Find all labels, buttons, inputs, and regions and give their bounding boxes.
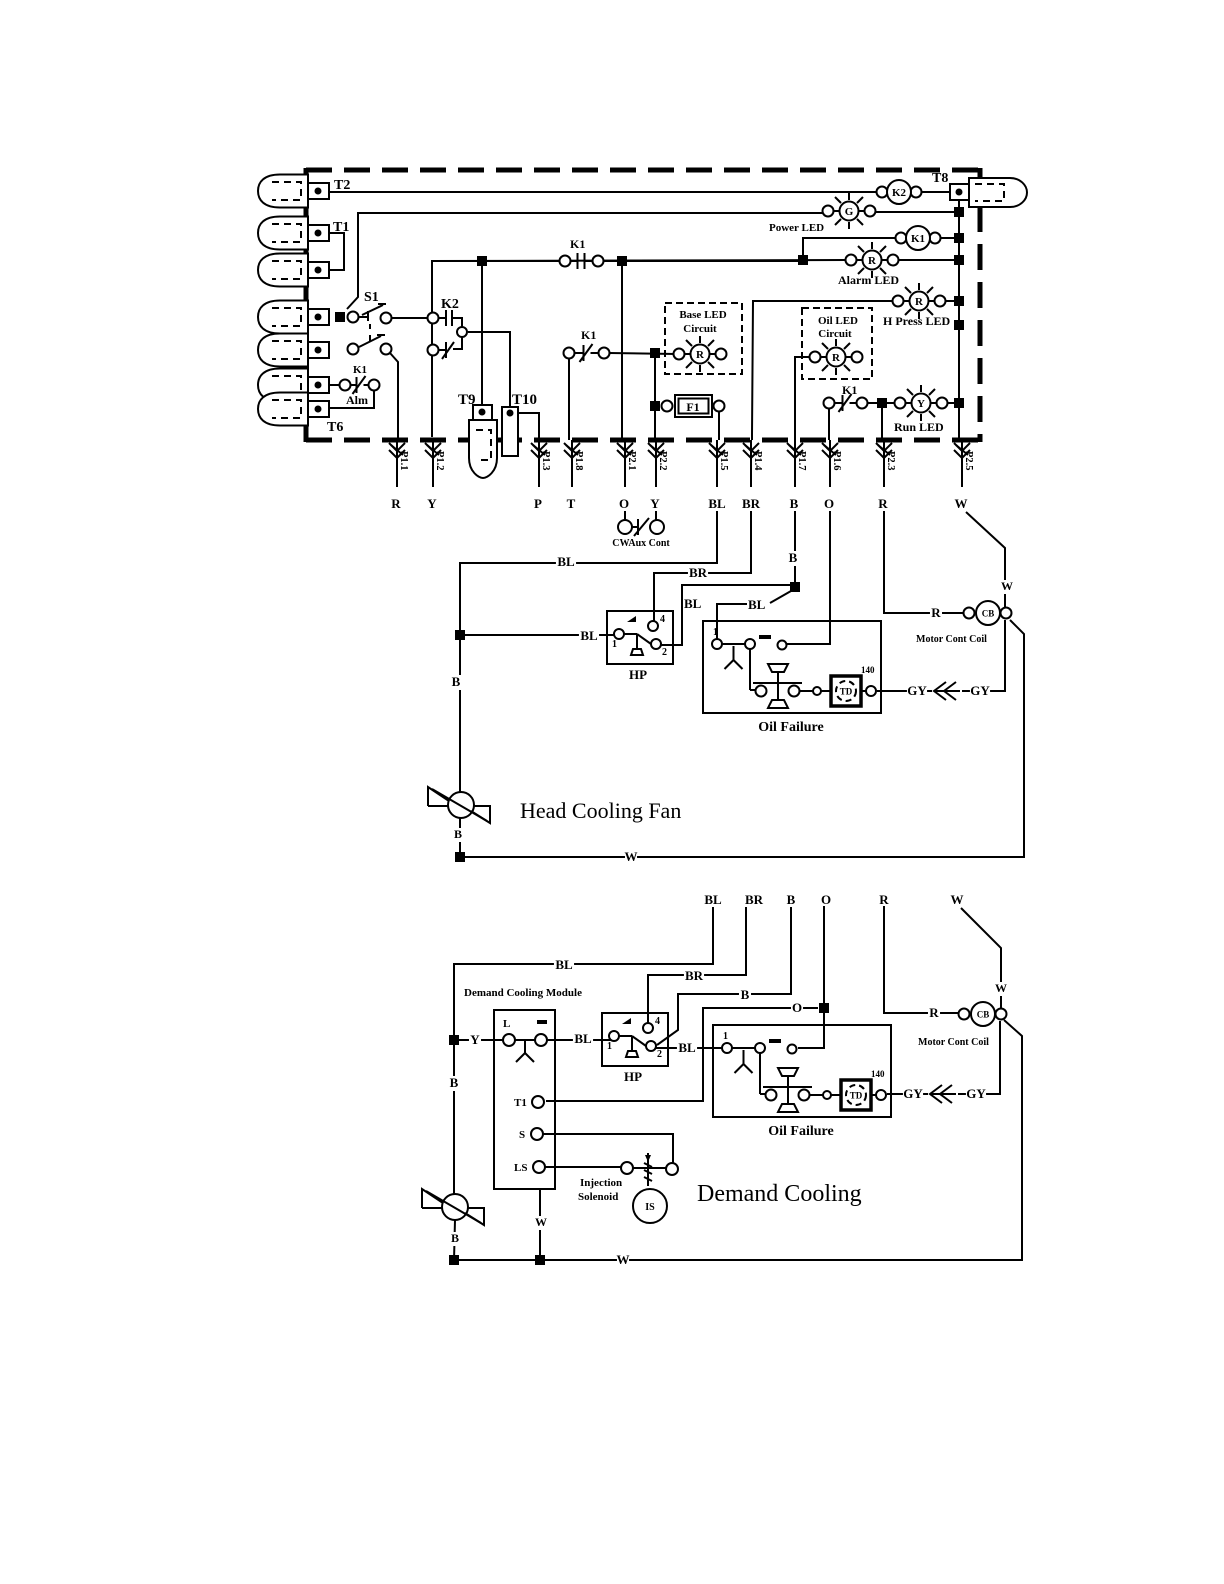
svg-text:R: R — [391, 496, 401, 511]
svg-text:R: R — [878, 496, 888, 511]
svg-text:T: T — [567, 496, 576, 511]
wire S1 lower pole to port P1.1 — [390, 353, 398, 440]
svg-text:BR: BR — [742, 496, 761, 511]
svg-text:CB: CB — [982, 609, 995, 619]
wire TD to GY — [877, 690, 932, 692]
svg-text:GY: GY — [966, 1086, 986, 1101]
port P1.8 (T) — [564, 440, 584, 511]
wire R feeder to motor coil — [884, 906, 959, 1013]
wire O feeder — [823, 906, 825, 1008]
svg-text:B: B — [452, 674, 461, 689]
svg-text:Alm: Alm — [346, 393, 368, 407]
svg-text:O: O — [792, 1000, 802, 1015]
wire Run LED K1 contact to port P1.6 — [828, 408, 830, 440]
svg-text:T1: T1 — [333, 220, 349, 235]
svg-text:K1: K1 — [353, 364, 367, 376]
svg-text:P1.3: P1.3 — [540, 451, 551, 471]
contact CWAux — [618, 518, 664, 536]
svg-text:W: W — [1001, 579, 1013, 593]
wire W feeder — [961, 908, 1001, 1009]
svg-text:BR: BR — [689, 565, 708, 580]
relay contact K1 (Alm) — [340, 376, 380, 394]
svg-text:K2: K2 — [892, 187, 907, 199]
connector T2 — [258, 175, 329, 208]
svg-text:T1: T1 — [514, 1097, 527, 1109]
svg-text:B: B — [454, 827, 462, 841]
wire bottom W return — [460, 620, 1024, 857]
port P2.2 (Y) — [648, 440, 668, 511]
svg-text:O: O — [619, 496, 629, 511]
svg-text:B: B — [790, 496, 799, 511]
relay contact K1 (run LED) — [824, 394, 868, 412]
junction Y — [449, 1035, 459, 1045]
svg-text:K1: K1 — [581, 328, 596, 342]
motor contactor coil CB — [964, 601, 1012, 625]
wire K2 contact output to T10 — [468, 332, 510, 408]
svg-text:P1.4: P1.4 — [752, 451, 763, 471]
injection solenoid contact — [621, 1153, 678, 1186]
svg-text:R: R — [868, 255, 877, 267]
wire R from P2.3 to motor coil — [884, 511, 964, 613]
junction — [954, 296, 964, 306]
module input contacts — [503, 1018, 547, 1062]
svg-text:K1: K1 — [911, 233, 925, 245]
svg-text:K1: K1 — [570, 237, 585, 251]
svg-text:O: O — [821, 892, 831, 907]
svg-text:R: R — [832, 352, 841, 364]
svg-text:1: 1 — [607, 1041, 612, 1052]
connector T6 — [258, 393, 329, 426]
relay contact K1 (base LED) — [564, 344, 610, 362]
svg-text:LS: LS — [514, 1162, 527, 1174]
svg-text:4: 4 — [655, 1016, 660, 1027]
svg-text:P1.5: P1.5 — [718, 451, 729, 471]
wire node to T9 — [481, 261, 483, 408]
wire P2.2 to CWAux contact — [655, 511, 657, 520]
LED run (Y) — [895, 385, 948, 421]
port P1.7 (B) — [787, 440, 807, 511]
wire module W to bottom return — [539, 1189, 541, 1260]
Base LED circuit dashed box — [665, 303, 742, 374]
svg-text:BL: BL — [678, 1040, 696, 1055]
wire BR feeder to HP pin4 — [648, 907, 746, 1026]
port P1.5 (BL) — [708, 440, 729, 511]
wire module S to solenoid — [543, 1134, 673, 1163]
wire K1 coil to rail — [940, 237, 959, 239]
svg-text:CWAux Cont: CWAux Cont — [612, 538, 670, 549]
svg-text:B: B — [451, 1231, 459, 1245]
svg-text:Run LED: Run LED — [894, 420, 944, 434]
pressure switch HP — [607, 611, 673, 682]
svg-text:F1: F1 — [686, 400, 699, 414]
wire K1 contact to alarm bus — [603, 260, 798, 262]
wire HP pin2 to node B — [661, 585, 795, 645]
wire Oil LED to port P1.7 — [795, 357, 811, 440]
wire T1 jumper — [329, 233, 344, 270]
svg-text:R: R — [929, 1005, 939, 1020]
wire K2 coil to T8 — [921, 191, 951, 193]
motor contactor coil CB (demand) — [959, 1002, 1007, 1026]
LED base (R) — [674, 336, 727, 372]
connector row3 — [258, 254, 329, 287]
svg-text:O: O — [824, 496, 834, 511]
svg-text:B: B — [787, 892, 796, 907]
svg-text:H Press LED: H Press LED — [883, 314, 950, 328]
wire TD to GY — [887, 1093, 928, 1095]
svg-text:W: W — [617, 1252, 630, 1267]
svg-text:T10: T10 — [512, 392, 537, 408]
svg-text:R: R — [915, 296, 924, 308]
svg-text:B: B — [789, 550, 798, 565]
wire BL from P1.5 to fan leg — [460, 511, 717, 630]
wire P2.1 to CWAux contact — [624, 511, 626, 520]
wire O node to oil failure fixed contact — [798, 1008, 824, 1048]
wire T2 to relay coil K2 — [329, 191, 877, 193]
svg-text:Power LED: Power LED — [769, 222, 824, 234]
port P1.6 (O) — [822, 440, 842, 511]
wire Run LED node to port P2.3 — [881, 403, 883, 440]
svg-text:Demand Cooling Module: Demand Cooling Module — [464, 987, 582, 999]
connector row4 — [258, 301, 329, 334]
svg-text:P2.3: P2.3 — [885, 451, 896, 471]
switch S1 (lower pole) — [348, 324, 392, 355]
port P1.2 (Y) — [425, 440, 445, 511]
svg-text:BL: BL — [580, 628, 598, 643]
svg-text:Alarm LED: Alarm LED — [838, 273, 899, 287]
svg-text:T6: T6 — [327, 420, 343, 435]
svg-text:P1.7: P1.7 — [796, 451, 807, 471]
port P2.1 (O) — [617, 440, 637, 511]
wire left leg down to fan — [459, 635, 461, 793]
wire K1 NC to Base LED node — [609, 353, 676, 354]
svg-text:Motor Cont Coil: Motor Cont Coil — [916, 634, 987, 645]
svg-text:R: R — [931, 605, 941, 620]
svg-text:Oil Failure: Oil Failure — [768, 1124, 833, 1139]
junction node B — [790, 582, 800, 592]
Oil LED circuit dashed box — [802, 308, 872, 379]
injection solenoid coil IS — [633, 1189, 667, 1223]
svg-text:BL: BL — [557, 554, 575, 569]
relay coil K2 — [877, 180, 922, 204]
wire BR from P1.4 to HP pin 4 — [654, 511, 751, 622]
svg-text:BL: BL — [555, 957, 573, 972]
right distribution rail — [958, 192, 960, 440]
wire Run LED row — [867, 402, 959, 404]
svg-text:Y: Y — [650, 496, 660, 511]
port P1.3 (P) — [531, 440, 551, 511]
svg-text:HP: HP — [629, 667, 647, 682]
svg-text:W: W — [995, 981, 1007, 995]
svg-text:Oil LED: Oil LED — [818, 315, 858, 327]
control module dashed enclosure — [306, 168, 980, 442]
junction — [477, 256, 487, 266]
relay coil K1 — [896, 226, 941, 250]
svg-text:B: B — [450, 1075, 459, 1090]
wire K1 coil branch — [803, 238, 897, 260]
wire module output BL to HP pin1 — [547, 1039, 612, 1041]
demand cooling module box — [494, 1010, 555, 1189]
svg-text:P2.1: P2.1 — [626, 451, 637, 471]
svg-text:IS: IS — [645, 1202, 655, 1213]
junction — [954, 233, 964, 243]
wire fan to bottom W — [454, 1220, 455, 1260]
port P2.5 (W) — [954, 440, 974, 511]
oil failure switch — [703, 621, 881, 735]
svg-text:GY: GY — [907, 683, 927, 698]
svg-text:BL: BL — [704, 892, 722, 907]
svg-text:K2: K2 — [441, 297, 459, 312]
svg-text:B: B — [741, 987, 750, 1002]
svg-text:2: 2 — [657, 1049, 662, 1060]
wire B feeder to HP pin2 node — [657, 907, 791, 1045]
LED alarm (R) — [846, 242, 899, 278]
svg-text:140: 140 — [861, 665, 875, 675]
junction — [954, 398, 964, 408]
oil failure switch (demand) — [713, 1025, 891, 1139]
port P2.3 (R) — [876, 440, 896, 511]
wire oil pin1 to node B (BL) — [717, 604, 747, 639]
svg-text:L: L — [503, 1018, 510, 1030]
wire Alarm LED to rail — [896, 259, 959, 261]
svg-text:R: R — [879, 892, 889, 907]
connector row6 — [258, 369, 329, 402]
LED power (G) — [823, 193, 876, 229]
svg-text:K1: K1 — [842, 383, 857, 397]
wire alarm bus (K2 rail to Alarm LED) — [432, 260, 847, 437]
svg-text:T2: T2 — [334, 178, 350, 193]
junction — [798, 255, 808, 265]
svg-text:BL: BL — [684, 596, 702, 611]
svg-text:W: W — [625, 849, 638, 864]
svg-text:Motor Cont Coil: Motor Cont Coil — [918, 1037, 989, 1048]
junction — [335, 312, 345, 322]
svg-text:Base LED: Base LED — [679, 309, 726, 321]
wire mid K1 NC to port P1.8 — [568, 358, 570, 440]
svg-text:G: G — [845, 206, 854, 218]
svg-text:2: 2 — [662, 647, 667, 658]
module terminal T1 — [514, 1096, 544, 1109]
junction — [455, 852, 465, 862]
svg-text:CB: CB — [977, 1010, 990, 1020]
relay contact K2 (NO+NC pair) — [428, 310, 468, 359]
pressure switch HP (demand) — [602, 1013, 668, 1084]
svg-text:TD: TD — [850, 1091, 863, 1101]
svg-text:P1.6: P1.6 — [831, 451, 842, 471]
wire T1 to O node — [546, 1008, 818, 1101]
svg-text:Y: Y — [917, 398, 925, 410]
wire O from P1.6 to oil failure fixed contact — [787, 511, 830, 644]
connector chevrons GY (demand) — [930, 1085, 956, 1103]
module terminal LS — [514, 1161, 545, 1174]
wire S1 to K2 contact — [391, 317, 428, 319]
svg-text:P1.1: P1.1 — [398, 451, 409, 471]
svg-text:S1: S1 — [364, 290, 379, 305]
wire Alm contact to T6 — [329, 390, 374, 408]
svg-text:W: W — [535, 1215, 547, 1229]
LED high-pressure (R) — [893, 283, 946, 319]
junction — [455, 630, 465, 640]
svg-text:Circuit: Circuit — [818, 328, 852, 340]
svg-text:R: R — [696, 349, 705, 361]
svg-text:Solenoid: Solenoid — [578, 1191, 618, 1203]
wire S1 feed to Power LED — [347, 213, 824, 309]
wire W from P2.5 to motor coil — [966, 512, 1005, 608]
wire HP pin2 to oil pin1 (BL) — [656, 1047, 722, 1049]
wire fuse F1 to port P1.5 — [718, 408, 720, 440]
junction — [449, 1255, 459, 1265]
wire BL feeder — [454, 907, 713, 1035]
junction — [954, 207, 964, 217]
connector T8 — [950, 178, 1027, 207]
wire module LS to solenoid — [545, 1166, 621, 1168]
connector T10 — [502, 407, 518, 456]
svg-text:Injection: Injection — [580, 1177, 622, 1189]
head cooling fan motor — [428, 787, 491, 823]
junction — [954, 187, 964, 197]
svg-text:P1.8: P1.8 — [573, 451, 584, 471]
svg-text:GY: GY — [970, 683, 990, 698]
wire H Press LED to rail — [945, 300, 959, 302]
relay contact K1 (alarm bus) — [560, 253, 604, 269]
junction — [650, 348, 660, 358]
svg-text:HP: HP — [624, 1069, 642, 1084]
wire node to port P2.1 — [621, 261, 623, 440]
fuse F1 — [662, 395, 725, 417]
module terminal S — [519, 1128, 543, 1141]
svg-text:BL: BL — [748, 597, 766, 612]
connector T1 — [258, 217, 329, 250]
svg-text:Y: Y — [427, 496, 437, 511]
junction O — [819, 1003, 829, 1013]
junction — [954, 320, 964, 330]
svg-text:BL: BL — [574, 1031, 592, 1046]
svg-text:BL: BL — [708, 496, 726, 511]
svg-text:1: 1 — [612, 639, 617, 650]
svg-text:Y: Y — [470, 1032, 480, 1047]
svg-text:P: P — [534, 496, 542, 511]
svg-text:P2.5: P2.5 — [963, 451, 974, 471]
junction — [877, 398, 887, 408]
svg-text:P1.2: P1.2 — [434, 451, 445, 471]
wire Y left leg — [454, 1039, 504, 1041]
junction — [954, 255, 964, 265]
connector T9 — [469, 405, 497, 478]
svg-text:T9: T9 — [458, 392, 476, 408]
wire Run LED rail exit port P2.5 — [958, 403, 960, 440]
junction — [535, 1255, 545, 1265]
svg-text:BR: BR — [685, 968, 704, 983]
wire GY return up to coil — [962, 620, 1005, 691]
svg-text:Circuit: Circuit — [683, 323, 717, 335]
svg-text:S: S — [519, 1129, 525, 1141]
wire Power LED to right rail — [873, 211, 959, 213]
svg-text:W: W — [955, 496, 968, 511]
svg-text:BR: BR — [745, 892, 764, 907]
wire H Press LED feed from port P1.4 — [752, 301, 894, 440]
connector row5 — [258, 334, 329, 367]
port P1.1 (R) — [389, 440, 409, 511]
junction — [650, 401, 660, 411]
wire fan to bottom W wire — [459, 818, 461, 857]
svg-text:GY: GY — [903, 1086, 923, 1101]
wire T10 to port P1.3 — [515, 413, 539, 440]
connector chevrons GY — [934, 682, 960, 700]
LED oil (R) — [810, 339, 863, 375]
wire B from P1.7 to node — [794, 511, 796, 587]
svg-text:P2.2: P2.2 — [657, 451, 668, 471]
svg-text:W: W — [951, 892, 964, 907]
svg-text:140: 140 — [871, 1069, 885, 1079]
demand cooling fan motor — [422, 1189, 485, 1225]
svg-text:Head Cooling Fan: Head Cooling Fan — [520, 798, 681, 823]
wire GY return up to coil — [958, 1021, 1000, 1094]
svg-text:1: 1 — [713, 627, 718, 638]
svg-text:4: 4 — [660, 614, 665, 625]
wire coil to bottom W return — [454, 1020, 1022, 1260]
svg-text:Demand Cooling: Demand Cooling — [697, 1181, 862, 1207]
wire left leg to HP pin1 (BL) — [460, 634, 614, 636]
svg-text:T8: T8 — [932, 171, 948, 186]
port P1.4 (BR) — [742, 440, 763, 511]
svg-text:1: 1 — [723, 1031, 728, 1042]
switch S1 (upper pole) — [348, 304, 392, 324]
junction — [617, 256, 627, 266]
svg-text:TD: TD — [840, 687, 853, 697]
wire Base LED node down to fuse node / port P2.2 — [654, 353, 656, 440]
wire left leg down to fan — [453, 1040, 455, 1195]
svg-text:Oil Failure: Oil Failure — [758, 720, 823, 735]
